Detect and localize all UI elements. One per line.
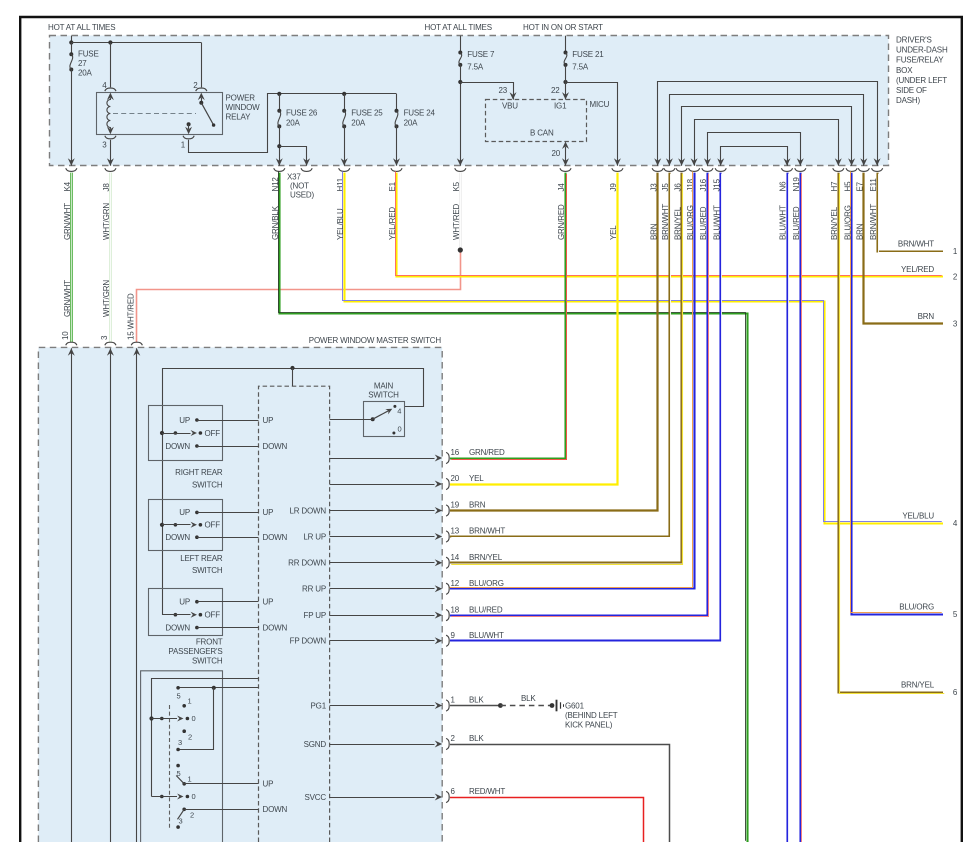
svg-text:20A: 20A bbox=[286, 119, 301, 128]
switch driver's window (outer box) bbox=[141, 671, 223, 842]
switch front passenger (box) bbox=[149, 589, 223, 636]
master switch pin 18 output bbox=[330, 615, 435, 617]
svg-text:BLU/RED: BLU/RED bbox=[792, 206, 801, 240]
svg-text:BLU/ORG: BLU/ORG bbox=[899, 603, 934, 612]
connector N6 at fuse box bbox=[781, 168, 792, 171]
svg-text:FUSE 21: FUSE 21 bbox=[572, 50, 604, 59]
svg-text:10: 10 bbox=[61, 331, 70, 340]
svg-text:7.5A: 7.5A bbox=[467, 62, 484, 71]
svg-text:WHT/RED: WHT/RED bbox=[452, 204, 461, 240]
svg-text:BRN/YEL: BRN/YEL bbox=[673, 206, 682, 240]
svg-text:SWITCH: SWITCH bbox=[192, 566, 223, 575]
svg-text:BLU/ORG: BLU/ORG bbox=[843, 205, 852, 240]
svg-text:SIDE OF: SIDE OF bbox=[896, 86, 927, 95]
relay coil bbox=[107, 93, 114, 101]
svg-text:BRN/WHT: BRN/WHT bbox=[898, 240, 934, 249]
svg-text:BLK: BLK bbox=[469, 734, 484, 743]
master switch pin 3 bbox=[105, 342, 116, 345]
svg-text:WHT/GRN: WHT/GRN bbox=[102, 203, 111, 240]
svg-text:5: 5 bbox=[177, 692, 181, 701]
wire BLK pin 1 to ground bbox=[450, 705, 500, 707]
svg-text:BRN: BRN bbox=[856, 223, 865, 240]
wire pin3 down-page bbox=[110, 348, 112, 842]
wire driver UP to control unit bbox=[184, 783, 258, 785]
svg-text:LR UP: LR UP bbox=[303, 532, 326, 541]
connector K4 at fuse box bbox=[66, 168, 77, 171]
svg-text:3: 3 bbox=[178, 738, 182, 747]
svg-text:KICK PANEL): KICK PANEL) bbox=[565, 721, 613, 730]
wire GRN/WHT K4 to pin 10 bbox=[70, 173, 72, 343]
wire bridge x669 to x863 bbox=[670, 95, 864, 166]
svg-text:MICU: MICU bbox=[590, 100, 610, 109]
svg-text:FUSE 7: FUSE 7 bbox=[467, 50, 495, 59]
svg-text:SWITCH: SWITCH bbox=[192, 657, 223, 666]
svg-text:20: 20 bbox=[551, 149, 560, 158]
svg-text:HOT AT ALL TIMES: HOT AT ALL TIMES bbox=[48, 23, 115, 32]
master switch pin 9 output bbox=[330, 640, 435, 642]
connector N19 at fuse box bbox=[795, 168, 806, 171]
svg-text:VBU: VBU bbox=[502, 102, 518, 111]
svg-text:DOWN: DOWN bbox=[263, 533, 288, 542]
svg-text:FUSE 24: FUSE 24 bbox=[404, 109, 436, 118]
svg-text:BLU/ORG: BLU/ORG bbox=[686, 205, 695, 240]
wire RR UP to control unit bbox=[197, 420, 259, 422]
svg-text:BLU/WHT: BLU/WHT bbox=[779, 205, 788, 240]
wire WHT/RED from K5 to master switch pin 15 bbox=[460, 173, 462, 250]
wire BRN/YEL H7 to right edge (6) bbox=[839, 173, 944, 693]
svg-text:7.5A: 7.5A bbox=[572, 62, 589, 71]
master switch pin 2 output bbox=[330, 744, 435, 746]
wire RED/WHT pin 6 down-page bbox=[450, 798, 644, 842]
master switch pin 6 output bbox=[330, 797, 435, 799]
wire driver DOWN to control unit bbox=[184, 809, 258, 811]
connector E7 at fuse box bbox=[858, 168, 869, 171]
svg-text:20A: 20A bbox=[404, 119, 419, 128]
svg-text:OFF: OFF bbox=[205, 611, 221, 620]
svg-text:3: 3 bbox=[102, 141, 107, 150]
svg-text:G601: G601 bbox=[565, 702, 585, 711]
master switch pin 12 output bbox=[330, 588, 435, 590]
svg-text:BLU/WHT: BLU/WHT bbox=[469, 631, 504, 640]
wire BLU/RED J16 to pin 18 bbox=[450, 173, 708, 616]
wire GRN/RED J4 to pin 16 bbox=[450, 173, 566, 459]
wire A control unit to driver switch common rail bbox=[152, 679, 259, 797]
wire BRN/WHT J5 to pin 13 bbox=[450, 173, 670, 537]
svg-text:4: 4 bbox=[953, 519, 958, 528]
wire BLU/ORG J18 to pin 12 bbox=[450, 173, 695, 589]
svg-text:(NOT: (NOT bbox=[290, 182, 309, 191]
svg-text:13: 13 bbox=[451, 527, 460, 536]
connector J15 at fuse box bbox=[715, 168, 726, 171]
svg-text:BLU/WHT: BLU/WHT bbox=[712, 205, 721, 240]
svg-text:3: 3 bbox=[100, 335, 109, 340]
LR OFF wiper bbox=[160, 523, 164, 527]
svg-text:FP DOWN: FP DOWN bbox=[290, 637, 327, 646]
wire YEL/BLU from H11 to right edge (4) bbox=[345, 173, 944, 524]
svg-text:UP: UP bbox=[179, 416, 190, 425]
svg-text:UP: UP bbox=[263, 508, 274, 517]
wire FP UP to control unit bbox=[197, 601, 259, 603]
power window master switch box (dashed, blue fill) bbox=[38, 347, 442, 842]
fuse F25 (FUSE 25 20A) bbox=[342, 92, 346, 96]
svg-text:UP: UP bbox=[263, 598, 274, 607]
svg-text:6: 6 bbox=[953, 688, 958, 697]
svg-text:YEL/BLU: YEL/BLU bbox=[902, 512, 934, 521]
RR OFF wiper bbox=[160, 431, 164, 435]
svg-text:(BEHIND LEFT: (BEHIND LEFT bbox=[565, 711, 618, 720]
wire relay pin1 to window fuse bus bbox=[189, 94, 397, 153]
svg-text:1: 1 bbox=[451, 696, 456, 705]
svg-text:BOX: BOX bbox=[896, 66, 913, 75]
svg-text:2: 2 bbox=[188, 733, 192, 742]
svg-text:YEL/BLU: YEL/BLU bbox=[336, 208, 345, 240]
svg-text:BLU/RED: BLU/RED bbox=[469, 605, 503, 614]
wire BRN E7 to right edge (3) bbox=[864, 173, 944, 324]
svg-text:2: 2 bbox=[451, 734, 456, 743]
svg-text:LEFT REAR: LEFT REAR bbox=[180, 554, 223, 563]
connector J8 at fuse box bbox=[105, 168, 116, 171]
wire bridge x694 to x838 bbox=[695, 120, 839, 166]
svg-text:20A: 20A bbox=[351, 119, 366, 128]
wire fuse24 down to E1 bbox=[396, 126, 398, 165]
wire right rail to terminal 3 bbox=[178, 688, 213, 750]
master switch pin 1 output bbox=[330, 705, 435, 707]
svg-text:B CAN: B CAN bbox=[530, 129, 554, 138]
svg-text:GRN/WHT: GRN/WHT bbox=[63, 203, 72, 240]
svg-text:14: 14 bbox=[451, 553, 460, 562]
svg-text:UP: UP bbox=[263, 416, 274, 425]
svg-text:DOWN: DOWN bbox=[263, 623, 288, 632]
connector H5 at fuse box bbox=[846, 168, 857, 171]
svg-text:BLU/RED: BLU/RED bbox=[699, 206, 708, 240]
connector X37 at fuse box bbox=[301, 168, 312, 171]
wire fuse27 down to K4 bbox=[71, 70, 73, 166]
svg-text:1: 1 bbox=[181, 141, 186, 150]
fuse F26 (FUSE 26 20A) bbox=[277, 92, 281, 96]
svg-text:RIGHT REAR: RIGHT REAR bbox=[175, 468, 223, 477]
svg-text:18: 18 bbox=[451, 605, 460, 614]
svg-text:BRN/WHT: BRN/WHT bbox=[661, 204, 670, 240]
switch main MAIN SWITCH bbox=[364, 402, 405, 437]
svg-text:FUSE 25: FUSE 25 bbox=[351, 109, 383, 118]
svg-text:4: 4 bbox=[397, 407, 401, 416]
svg-text:BRN/YEL: BRN/YEL bbox=[901, 681, 935, 690]
svg-text:N6: N6 bbox=[779, 181, 788, 192]
svg-text:SVCC: SVCC bbox=[304, 793, 326, 802]
under-dash fuse/relay box (dashed, blue fill) bbox=[50, 36, 889, 166]
svg-text:16: 16 bbox=[451, 448, 460, 457]
svg-text:22: 22 bbox=[551, 86, 560, 95]
svg-text:2: 2 bbox=[190, 811, 194, 820]
svg-text:5: 5 bbox=[953, 610, 958, 619]
svg-text:GRN/BLK: GRN/BLK bbox=[271, 205, 280, 240]
svg-text:IG1: IG1 bbox=[554, 102, 567, 111]
wire BRN/YEL J6 to pin 14 bbox=[450, 173, 682, 563]
svg-text:YEL/RED: YEL/RED bbox=[388, 207, 397, 240]
svg-text:BRN/YEL: BRN/YEL bbox=[469, 553, 503, 562]
svg-text:FUSE 26: FUSE 26 bbox=[286, 109, 318, 118]
svg-text:6: 6 bbox=[451, 787, 456, 796]
svg-text:DASH): DASH) bbox=[896, 96, 921, 105]
wire bridge x707 to x800 bbox=[708, 133, 801, 166]
svg-text:RED/WHT: RED/WHT bbox=[469, 787, 505, 796]
svg-text:DOWN: DOWN bbox=[263, 805, 288, 814]
svg-text:1: 1 bbox=[953, 247, 958, 256]
wire feed bus to relay pins 4 and 2 bbox=[71, 42, 201, 44]
svg-text:0: 0 bbox=[192, 714, 196, 723]
relay mechanical link (dashed) bbox=[113, 113, 196, 115]
svg-text:BLU/ORG: BLU/ORG bbox=[469, 579, 504, 588]
master switch pin 14 output bbox=[330, 562, 435, 564]
fuse F21 (FUSE 21 7.5A) bbox=[565, 36, 567, 53]
svg-text:OFF: OFF bbox=[205, 429, 221, 438]
connector J9 at fuse box bbox=[612, 168, 623, 171]
svg-text:FUSE: FUSE bbox=[78, 50, 99, 59]
svg-text:FRONT: FRONT bbox=[196, 637, 223, 646]
ground G601 bbox=[556, 700, 558, 712]
svg-text:9: 9 bbox=[451, 631, 456, 640]
wire BLU/ORG H5 to right edge (5) bbox=[852, 173, 944, 615]
svg-text:23: 23 bbox=[498, 86, 507, 95]
svg-text:BRN/YEL: BRN/YEL bbox=[830, 206, 839, 240]
connector J18 at fuse box bbox=[689, 168, 700, 171]
wire fuse25 down to H11 bbox=[344, 126, 346, 165]
svg-text:BRN: BRN bbox=[918, 312, 935, 321]
svg-text:RELAY: RELAY bbox=[226, 112, 252, 121]
svg-text:0: 0 bbox=[398, 425, 402, 434]
driver wiper blade DOWN position bbox=[178, 809, 185, 819]
wire RR DOWN to control unit bbox=[197, 446, 259, 448]
wire fuse7 to K5 and VBU branch bbox=[460, 65, 462, 166]
wire GRN/BLK from N12 down-page bbox=[280, 173, 748, 842]
svg-text:GRN/WHT: GRN/WHT bbox=[63, 280, 72, 317]
wire LR DOWN to control unit bbox=[197, 537, 259, 539]
svg-text:BLK: BLK bbox=[469, 696, 484, 705]
switch right rear (box) bbox=[149, 406, 223, 461]
svg-text:SWITCH: SWITCH bbox=[192, 480, 223, 489]
wire main switch terminal 4 to bus bbox=[405, 368, 424, 407]
svg-text:BRN/WHT: BRN/WHT bbox=[469, 527, 505, 536]
svg-text:BRN: BRN bbox=[649, 223, 658, 240]
inner control unit (dashed box) bbox=[259, 386, 330, 842]
svg-text:0: 0 bbox=[192, 792, 196, 801]
wire B control unit to driver switch terminals 5/3 bbox=[178, 687, 259, 689]
svg-text:19: 19 bbox=[451, 501, 460, 510]
switch left rear (box) bbox=[149, 500, 223, 551]
relay K1 POWER WINDOW RELAY (box) bbox=[97, 93, 223, 135]
connector E11 at fuse box bbox=[872, 168, 883, 171]
connector H7 at fuse box bbox=[833, 168, 844, 171]
svg-text:USED): USED) bbox=[290, 191, 315, 200]
svg-text:20A: 20A bbox=[78, 68, 93, 77]
wire BRN/WHT E11 to right edge (1) bbox=[878, 173, 944, 252]
wire BLU/WHT J15 to pin 9 bbox=[450, 173, 721, 641]
svg-text:PG1: PG1 bbox=[311, 701, 327, 710]
svg-text:HOT IN ON OR START: HOT IN ON OR START bbox=[523, 23, 603, 32]
wire pin15 down-page bbox=[136, 348, 138, 842]
wire bridge x720 to x787 bbox=[721, 147, 788, 166]
wire WHT/GRN J8 to pin 3 bbox=[110, 173, 112, 343]
wire BLU/RED N19 down-page bbox=[799, 173, 801, 842]
svg-text:UP: UP bbox=[179, 508, 190, 517]
svg-text:UNDER-DASH: UNDER-DASH bbox=[896, 46, 948, 55]
svg-text:DRIVER'S: DRIVER'S bbox=[896, 36, 932, 45]
svg-text:UP: UP bbox=[179, 598, 190, 607]
wire fuse21 to IG1 and J9 branch bbox=[563, 80, 567, 84]
driver switch upper section bbox=[176, 686, 180, 690]
svg-text:DOWN: DOWN bbox=[165, 442, 190, 451]
master switch pin 20 output bbox=[330, 484, 435, 486]
wire pin10 down-page bbox=[71, 348, 73, 842]
wire FP DOWN to control unit bbox=[197, 627, 259, 629]
FP OFF wiper bbox=[174, 613, 178, 617]
svg-text:WHT/GRN: WHT/GRN bbox=[102, 280, 111, 317]
svg-text:DOWN: DOWN bbox=[165, 623, 190, 632]
svg-text:YEL: YEL bbox=[609, 225, 618, 240]
svg-text:MAIN: MAIN bbox=[374, 382, 394, 391]
svg-text:RR UP: RR UP bbox=[302, 585, 326, 594]
svg-text:FP UP: FP UP bbox=[303, 611, 326, 620]
wire BLK pin 2 down-page bbox=[450, 745, 670, 842]
svg-text:20: 20 bbox=[451, 474, 460, 483]
connector J5 at fuse box bbox=[664, 168, 675, 171]
master switch pin 10 bbox=[66, 342, 77, 345]
svg-text:1: 1 bbox=[188, 697, 192, 706]
svg-text:DOWN: DOWN bbox=[165, 533, 190, 542]
svg-text:SWITCH: SWITCH bbox=[368, 391, 399, 400]
svg-text:BRN: BRN bbox=[469, 501, 486, 510]
master switch pin 16 output bbox=[330, 458, 435, 460]
connector J4 at fuse box bbox=[560, 168, 571, 171]
fuse F27 (FUSE 27 20A) bbox=[71, 36, 73, 43]
wire BRN J3 to pin 19 bbox=[450, 173, 658, 511]
master switch pin 19 output bbox=[330, 510, 435, 512]
wire main switch common to control unit bbox=[330, 419, 373, 421]
svg-text:GRN/RED: GRN/RED bbox=[469, 448, 505, 457]
svg-text:1: 1 bbox=[188, 775, 192, 784]
svg-text:(UNDER LEFT: (UNDER LEFT bbox=[896, 76, 947, 85]
svg-text:15 WHT/RED: 15 WHT/RED bbox=[127, 293, 136, 340]
connector K5 at fuse box bbox=[455, 168, 466, 171]
wire YEL J9 to pin 20 bbox=[450, 173, 618, 485]
svg-text:BLK: BLK bbox=[521, 694, 536, 703]
wire supply rail to switches bbox=[162, 368, 164, 615]
svg-text:PASSENGER'S: PASSENGER'S bbox=[168, 647, 222, 656]
driver wiper blade UP position bbox=[176, 776, 184, 784]
control unit MICU (dashed box) bbox=[486, 100, 587, 142]
master switch pin 13 output bbox=[330, 536, 435, 538]
master switch pin 15 bbox=[131, 342, 142, 345]
wire bridge x657 to x877 bbox=[658, 82, 878, 166]
svg-text:RR DOWN: RR DOWN bbox=[288, 559, 326, 568]
connector H11 at fuse box bbox=[339, 168, 350, 171]
svg-text:POWER: POWER bbox=[226, 93, 256, 102]
svg-text:YEL/RED: YEL/RED bbox=[901, 265, 934, 274]
svg-text:X37: X37 bbox=[287, 172, 301, 181]
svg-text:HOT AT ALL TIMES: HOT AT ALL TIMES bbox=[425, 23, 492, 32]
connector E1 at fuse box bbox=[391, 168, 402, 171]
wire bridge x681 to x851 bbox=[682, 107, 852, 166]
relay switch contacts bbox=[198, 93, 205, 101]
driver switch lower section bbox=[176, 764, 180, 768]
svg-text:27: 27 bbox=[78, 59, 87, 68]
wire LR UP to control unit bbox=[197, 512, 259, 514]
wire BLU/WHT N6 down-page bbox=[786, 173, 788, 842]
svg-text:DOWN: DOWN bbox=[263, 442, 288, 451]
wire YEL/RED from E1 to right edge (2) bbox=[397, 173, 944, 277]
connector J6 at fuse box bbox=[676, 168, 687, 171]
connector J3 at fuse box bbox=[652, 168, 663, 171]
svg-text:SGND: SGND bbox=[304, 740, 327, 749]
svg-text:LR DOWN: LR DOWN bbox=[289, 506, 326, 515]
svg-text:3: 3 bbox=[953, 320, 958, 329]
svg-text:POWER WINDOW MASTER SWITCH: POWER WINDOW MASTER SWITCH bbox=[309, 336, 442, 345]
driver switch mechanical link (dashed) bbox=[169, 705, 171, 830]
svg-text:WINDOW: WINDOW bbox=[226, 103, 261, 112]
svg-text:2: 2 bbox=[953, 273, 958, 282]
svg-text:YEL: YEL bbox=[469, 474, 484, 483]
svg-text:12: 12 bbox=[451, 579, 460, 588]
wire relay pin3 down to J8 bbox=[110, 140, 112, 166]
svg-text:OFF: OFF bbox=[205, 521, 221, 530]
svg-text:GRN/RED: GRN/RED bbox=[557, 204, 566, 240]
wire supply bus in master switch bbox=[162, 368, 423, 370]
fuse F7 (FUSE 7 7.5A) bbox=[460, 36, 462, 53]
connector J16 at fuse box bbox=[702, 168, 713, 171]
svg-text:FUSE/RELAY: FUSE/RELAY bbox=[896, 56, 944, 65]
svg-text:UP: UP bbox=[263, 780, 274, 789]
wire fuse26 to N12 and X37 branch bbox=[279, 126, 281, 165]
svg-text:BRN/WHT: BRN/WHT bbox=[869, 204, 878, 240]
connector N12 at fuse box bbox=[274, 168, 285, 171]
fuse F24 (FUSE 24 20A) bbox=[396, 94, 398, 111]
